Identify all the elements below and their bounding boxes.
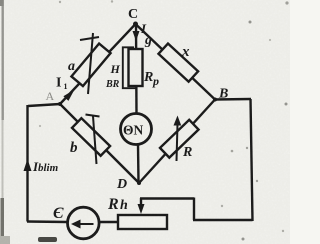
resistor b body	[72, 118, 110, 156]
galvanometer	[121, 114, 152, 145]
wire arm A-D	[60, 104, 139, 183]
switch bracket H	[123, 47, 137, 88]
node A dot	[58, 102, 62, 106]
scan edge left	[2, 0, 4, 120]
wire arm A-C	[60, 24, 136, 104]
node D dot	[137, 181, 141, 185]
current arrow Iblim	[24, 159, 32, 171]
wire arm D-B	[139, 100, 215, 184]
resistor R body	[160, 120, 199, 158]
scan smudge bottom left	[38, 237, 57, 242]
rheostat wiper arrow	[140, 198, 142, 206]
rheostat Rh body	[118, 215, 167, 229]
wire arm C-B	[136, 24, 216, 100]
wire galvanometer to D	[137, 145, 140, 183]
current arrow Ig	[133, 31, 140, 41]
variable mark on b	[93, 116, 97, 164]
variable mark on a	[88, 33, 93, 94]
wire A to left corner	[28, 104, 60, 106]
wire right vertical	[251, 99, 253, 221]
resistor x body	[158, 44, 198, 82]
wire bottom left	[27, 220, 67, 223]
node B dot	[213, 98, 217, 102]
scan specks	[249, 21, 252, 24]
wire battery to rheostat	[99, 221, 120, 223]
battery E circle	[68, 207, 100, 239]
wire wiper to right	[140, 197, 194, 199]
wire step down	[193, 198, 195, 221]
wire B to right corner	[214, 98, 251, 101]
arrow on R	[177, 124, 178, 161]
battery arrow	[78, 223, 94, 225]
wire C down to galvanometer	[135, 24, 138, 114]
wire bottom right	[193, 219, 253, 221]
wire left vertical	[26, 105, 28, 222]
resistor Rp body	[129, 49, 143, 86]
resistor a body	[71, 44, 110, 87]
current arrow I1	[63, 90, 74, 101]
node C dot	[133, 22, 138, 27]
